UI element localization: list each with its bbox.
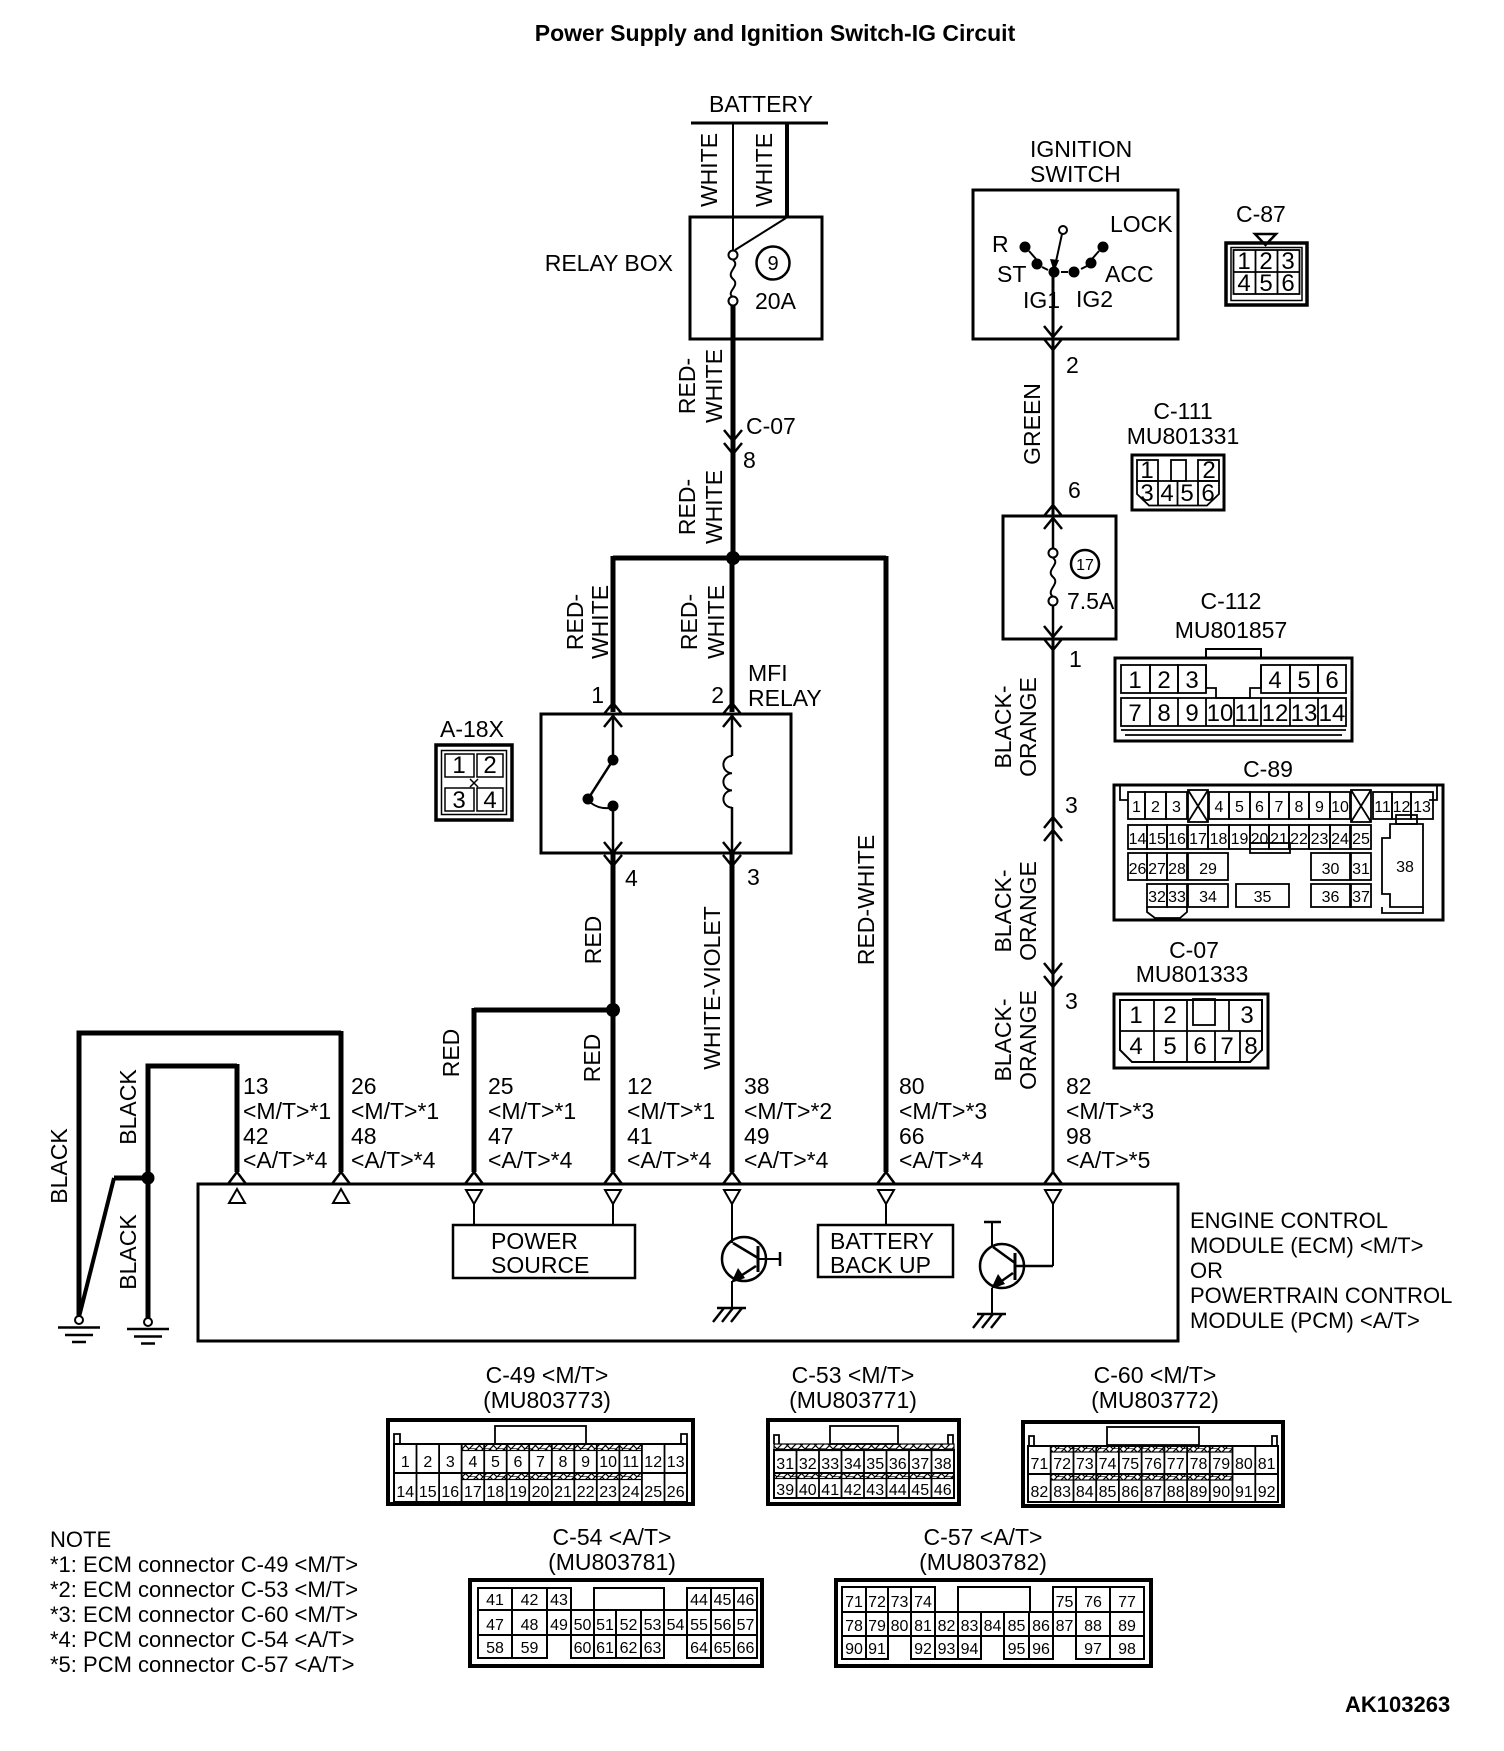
svg-text:35: 35: [1254, 889, 1272, 906]
svg-text:2: 2: [1163, 1002, 1176, 1029]
svg-text:BATTERY: BATTERY: [830, 1228, 934, 1254]
svg-text:11: 11: [1374, 799, 1391, 816]
svg-text:<M/T>*1: <M/T>*1: [351, 1098, 439, 1124]
svg-text:MU801333: MU801333: [1136, 961, 1249, 987]
ground G1: [58, 1316, 100, 1342]
svg-text:29: 29: [1199, 861, 1217, 878]
svg-text:<A/T>*4: <A/T>*4: [899, 1147, 984, 1173]
svg-text:65: 65: [714, 1640, 732, 1657]
svg-text:21: 21: [554, 1484, 572, 1501]
svg-text:RED-: RED-: [674, 479, 700, 535]
pin triangle 26/48: [333, 1189, 349, 1203]
svg-text:17: 17: [1189, 831, 1207, 848]
connector C-53 MU803771: [768, 1362, 959, 1504]
svg-text:20: 20: [532, 1484, 550, 1501]
svg-text:45: 45: [714, 1592, 732, 1609]
svg-text:7: 7: [1220, 1033, 1233, 1060]
svg-text:(MU803773): (MU803773): [483, 1387, 611, 1413]
fuse 17 7.5A box: [1003, 516, 1116, 639]
chassis ground Q2: [973, 1314, 1006, 1328]
fuse box exit chevrons: [1044, 626, 1062, 637]
svg-text:10: 10: [599, 1454, 617, 1471]
svg-text:4: 4: [1268, 667, 1281, 694]
svg-text:37: 37: [911, 1456, 929, 1473]
svg-text:97: 97: [1084, 1641, 1102, 1658]
svg-text:4: 4: [1215, 799, 1224, 816]
svg-text:MODULE (PCM) <A/T>: MODULE (PCM) <A/T>: [1190, 1308, 1420, 1333]
svg-text:83: 83: [1053, 1484, 1071, 1501]
svg-text:1: 1: [1129, 1002, 1142, 1029]
svg-text:6: 6: [1193, 1033, 1206, 1060]
ignition switch rotor: [1049, 226, 1068, 278]
svg-text:75: 75: [1121, 1456, 1139, 1473]
C-89 crossing chevrons: [1044, 817, 1062, 828]
svg-text:53: 53: [644, 1617, 662, 1634]
svg-text:6: 6: [1201, 480, 1214, 507]
svg-text:C-89: C-89: [1243, 756, 1293, 782]
svg-text:91: 91: [868, 1641, 886, 1658]
junction node B: [606, 1003, 620, 1017]
svg-text:LOCK: LOCK: [1110, 211, 1173, 237]
svg-text:14: 14: [1129, 831, 1147, 848]
svg-text:32: 32: [1148, 889, 1166, 906]
svg-text:85: 85: [1008, 1618, 1026, 1635]
svg-text:<M/T>*1: <M/T>*1: [488, 1098, 576, 1124]
svg-text:13: 13: [243, 1073, 269, 1099]
svg-text:WHITE: WHITE: [701, 470, 727, 544]
svg-text:62: 62: [620, 1640, 638, 1657]
svg-text:1: 1: [1132, 799, 1141, 816]
svg-text:63: 63: [644, 1640, 662, 1657]
connector C-89: [1114, 756, 1443, 920]
svg-text:SOURCE: SOURCE: [491, 1252, 589, 1278]
wire battery to relay box (WHITE) right: [785, 123, 789, 218]
svg-text:43: 43: [866, 1482, 884, 1499]
svg-text:77: 77: [1167, 1456, 1185, 1473]
svg-text:60: 60: [574, 1640, 592, 1657]
svg-text:98: 98: [1118, 1641, 1136, 1658]
svg-text:MU801857: MU801857: [1175, 617, 1288, 643]
svg-text:3: 3: [1065, 988, 1078, 1014]
svg-text:16: 16: [1168, 831, 1186, 848]
svg-text:13: 13: [1413, 799, 1431, 816]
wire ignition to fuse box (GREEN): [1052, 339, 1055, 516]
svg-text:73: 73: [1076, 1456, 1094, 1473]
svg-text:20: 20: [1251, 831, 1269, 848]
svg-text:50: 50: [574, 1617, 592, 1634]
svg-text:6: 6: [1068, 477, 1081, 503]
svg-text:OR: OR: [1190, 1258, 1223, 1283]
pin 2 entry chevrons: [723, 703, 741, 714]
svg-text:BLACK: BLACK: [115, 1214, 141, 1290]
svg-text:66: 66: [899, 1123, 925, 1149]
transistor Q1: [722, 1204, 780, 1309]
svg-text:ACC: ACC: [1105, 261, 1154, 287]
svg-text:<A/T>*4: <A/T>*4: [627, 1147, 712, 1173]
svg-text:C-60 <M/T>: C-60 <M/T>: [1094, 1362, 1217, 1388]
svg-text:51: 51: [596, 1617, 614, 1634]
svg-text:2: 2: [483, 752, 496, 779]
svg-text:58: 58: [486, 1640, 504, 1657]
svg-text:13: 13: [667, 1454, 685, 1471]
svg-text:74: 74: [914, 1594, 932, 1611]
svg-text:ORANGE: ORANGE: [1015, 677, 1041, 777]
svg-text:C-07: C-07: [1169, 937, 1219, 963]
wire diagonal to ground1: [79, 1178, 114, 1317]
wire label RED-WHITE mid branch: [676, 585, 729, 659]
svg-text:48: 48: [521, 1617, 539, 1634]
svg-text:A-18X: A-18X: [440, 716, 504, 742]
svg-text:6: 6: [1325, 667, 1338, 694]
svg-text:44: 44: [889, 1482, 907, 1499]
svg-text:RED: RED: [438, 1029, 464, 1078]
wire relay box to junction (RED-WHITE trunk): [731, 305, 736, 561]
svg-text:95: 95: [1008, 1641, 1026, 1658]
ECM pin entry chevrons: [228, 1172, 1062, 1184]
svg-text:9: 9: [1315, 799, 1324, 816]
svg-text:84: 84: [984, 1618, 1002, 1635]
svg-text:POWER: POWER: [491, 1228, 578, 1254]
svg-text:2: 2: [423, 1454, 432, 1471]
wire battery to relay box (WHITE) left: [732, 123, 734, 218]
ignition exit chevrons: [1044, 326, 1062, 337]
svg-text:NOTE: NOTE: [50, 1527, 111, 1552]
svg-text:7.5A: 7.5A: [1067, 588, 1115, 614]
svg-text:MU801331: MU801331: [1127, 423, 1240, 449]
connector crossing C-07 pin 8: [724, 413, 796, 473]
pin label 80/66: [899, 1073, 987, 1173]
svg-text:10: 10: [1207, 700, 1234, 727]
svg-text:71: 71: [845, 1594, 863, 1611]
wire junction C to ground2: [146, 1178, 151, 1318]
connector A-18X: [436, 716, 512, 820]
svg-text:49: 49: [744, 1123, 770, 1149]
wire horizontal junction bus: [613, 556, 886, 561]
svg-text:3: 3: [1240, 1002, 1253, 1029]
connector C-111 MU801331: [1127, 398, 1240, 510]
svg-text:<M/T>*3: <M/T>*3: [899, 1098, 987, 1124]
svg-text:WHITE: WHITE: [587, 585, 613, 659]
svg-text:41: 41: [627, 1123, 653, 1149]
wire mid horizontal: [146, 1064, 238, 1069]
wire label BLACK-ORANGE 2: [990, 861, 1041, 961]
svg-text:*3: ECM connector C-60 <M/T>: *3: ECM connector C-60 <M/T>: [50, 1602, 358, 1627]
svg-text:12: 12: [644, 1454, 662, 1471]
svg-text:ENGINE CONTROL: ENGINE CONTROL: [1190, 1208, 1388, 1233]
svg-text:45: 45: [911, 1482, 929, 1499]
svg-text:C-07: C-07: [746, 413, 796, 439]
svg-text:5: 5: [1163, 1033, 1176, 1060]
svg-text:11: 11: [622, 1454, 639, 1471]
svg-text:4: 4: [483, 787, 496, 814]
wire label BLACK-ORANGE 3: [990, 990, 1041, 1090]
ignition switch SW1: [973, 136, 1178, 339]
svg-text:POWERTRAIN CONTROL: POWERTRAIN CONTROL: [1190, 1283, 1452, 1308]
svg-text:2: 2: [1157, 667, 1170, 694]
svg-text:IGNITION: IGNITION: [1030, 136, 1132, 162]
svg-text:86: 86: [1032, 1618, 1050, 1635]
connector C-112 MU801857: [1115, 588, 1352, 741]
svg-text:12: 12: [1393, 799, 1411, 816]
contact ST chain dot: [1032, 259, 1043, 270]
svg-text:90: 90: [845, 1641, 863, 1658]
svg-text:WHITE: WHITE: [701, 349, 727, 423]
svg-text:52: 52: [620, 1617, 638, 1634]
svg-text:3: 3: [1185, 667, 1198, 694]
svg-text:85: 85: [1099, 1484, 1117, 1501]
svg-text:38: 38: [1396, 859, 1414, 876]
svg-text:90: 90: [1212, 1484, 1230, 1501]
svg-text:C-112: C-112: [1201, 588, 1262, 614]
svg-text:3: 3: [1065, 792, 1078, 818]
svg-text:*4: PCM connector C-54 <A/T>: *4: PCM connector C-54 <A/T>: [50, 1627, 354, 1652]
svg-text:24: 24: [1331, 831, 1349, 848]
svg-text:<A/T>*4: <A/T>*4: [488, 1147, 573, 1173]
svg-text:RED-: RED-: [676, 594, 702, 650]
svg-text:82: 82: [1031, 1484, 1049, 1501]
relay switch contact: [583, 714, 619, 853]
BATTERY BACK UP box: [818, 1204, 953, 1278]
svg-text:22: 22: [1290, 831, 1308, 848]
svg-text:5: 5: [1235, 799, 1244, 816]
svg-text:28: 28: [1168, 861, 1186, 878]
svg-text:74: 74: [1099, 1456, 1117, 1473]
contact LOCK: [1098, 242, 1109, 253]
wire ground2 riser (BLACK): [146, 1066, 151, 1176]
svg-text:42: 42: [521, 1592, 539, 1609]
svg-text:25: 25: [644, 1484, 662, 1501]
svg-text:57: 57: [737, 1617, 755, 1634]
svg-text:ORANGE: ORANGE: [1015, 861, 1041, 961]
svg-text:44: 44: [690, 1592, 708, 1609]
svg-text:*5: PCM connector C-57 <A/T>: *5: PCM connector C-57 <A/T>: [50, 1652, 354, 1677]
svg-text:<M/T>*1: <M/T>*1: [627, 1098, 715, 1124]
pin label 38/49: [744, 1073, 832, 1173]
svg-text:C-53 <M/T>: C-53 <M/T>: [792, 1362, 915, 1388]
svg-text:36: 36: [1322, 889, 1340, 906]
pin 4 exit chevrons: [604, 842, 622, 853]
svg-text:3: 3: [747, 864, 760, 890]
svg-text:15: 15: [1148, 831, 1166, 848]
svg-text:92: 92: [1258, 1484, 1276, 1501]
svg-text:2: 2: [1066, 352, 1079, 378]
svg-text:4: 4: [1129, 1033, 1142, 1060]
svg-text:3: 3: [452, 787, 465, 814]
contact R: [1020, 242, 1031, 253]
svg-text:AK103263: AK103263: [1345, 1692, 1450, 1717]
wire junction to MFI relay pin 1: [611, 556, 616, 712]
svg-text:4: 4: [468, 1454, 477, 1471]
pin triangle 12/41: [605, 1190, 621, 1204]
pin 1 entry chevrons: [604, 703, 622, 714]
svg-text:19: 19: [1231, 831, 1249, 848]
fuse box entry chevrons: [1044, 505, 1062, 516]
svg-text:WHITE: WHITE: [703, 585, 729, 659]
svg-text:34: 34: [1199, 889, 1217, 906]
svg-text:2: 2: [1151, 799, 1160, 816]
svg-text:77: 77: [1118, 1594, 1136, 1611]
svg-text:3: 3: [446, 1454, 455, 1471]
fuse 9 20A in relay box: [729, 218, 797, 314]
pin label 25/47: [488, 1073, 576, 1173]
svg-text:BLACK-: BLACK-: [990, 869, 1016, 952]
svg-text:23: 23: [1311, 831, 1329, 848]
svg-text:WHITE-VIOLET: WHITE-VIOLET: [699, 906, 725, 1070]
svg-text:79: 79: [1212, 1456, 1230, 1473]
svg-text:<M/T>*2: <M/T>*2: [744, 1098, 832, 1124]
svg-text:3: 3: [1140, 480, 1153, 507]
svg-text:41: 41: [821, 1482, 839, 1499]
svg-text:82: 82: [938, 1618, 956, 1635]
pin triangle 82/98: [1045, 1190, 1061, 1204]
pin triangle 80/66: [878, 1190, 894, 1204]
svg-text:Power Supply and Ignition Swit: Power Supply and Ignition Switch-IG Circ…: [535, 20, 1016, 46]
connector C-57 MU803782: [836, 1524, 1151, 1666]
svg-text:6: 6: [1281, 270, 1294, 297]
connector C-07 MU801333: [1114, 937, 1268, 1068]
wire ignition IG1 output: [1052, 272, 1055, 339]
wire to ECM pin 12 (RED): [611, 1010, 616, 1172]
svg-text:1: 1: [591, 682, 604, 708]
svg-text:6: 6: [514, 1454, 523, 1471]
ground G2: [127, 1318, 169, 1344]
svg-text:<A/T>*4: <A/T>*4: [351, 1147, 436, 1173]
svg-text:25: 25: [488, 1073, 514, 1099]
svg-text:32: 32: [799, 1456, 817, 1473]
svg-text:5: 5: [1259, 270, 1272, 297]
svg-text:26: 26: [351, 1073, 377, 1099]
svg-text:9: 9: [1185, 700, 1198, 727]
svg-text:40: 40: [799, 1482, 817, 1499]
svg-text:5: 5: [1180, 480, 1193, 507]
svg-text:9: 9: [581, 1454, 590, 1471]
svg-text:25: 25: [1352, 831, 1370, 848]
svg-text:81: 81: [914, 1618, 932, 1635]
contact ACC chain dot: [1086, 258, 1097, 269]
svg-text:42: 42: [243, 1123, 269, 1149]
svg-text:96: 96: [1032, 1641, 1050, 1658]
ECM side text: [1190, 1208, 1452, 1333]
svg-text:3: 3: [1172, 799, 1181, 816]
svg-text:12: 12: [627, 1073, 653, 1099]
svg-text:73: 73: [891, 1594, 909, 1611]
svg-text:46: 46: [934, 1482, 952, 1499]
svg-text:C-54 <A/T>: C-54 <A/T>: [553, 1524, 672, 1550]
svg-text:<A/T>*5: <A/T>*5: [1066, 1147, 1150, 1173]
svg-text:*1: ECM connector C-49 <M/T>: *1: ECM connector C-49 <M/T>: [50, 1552, 358, 1577]
svg-text:8: 8: [1295, 799, 1304, 816]
svg-text:C-87: C-87: [1236, 201, 1286, 227]
contact ACC dot: [1069, 267, 1080, 278]
svg-text:MODULE (ECM) <M/T>: MODULE (ECM) <M/T>: [1190, 1233, 1423, 1258]
svg-text:<M/T>*1: <M/T>*1: [243, 1098, 331, 1124]
svg-text:79: 79: [868, 1618, 886, 1635]
svg-text:84: 84: [1076, 1484, 1094, 1501]
connector C-49 MU803773: [388, 1362, 693, 1504]
connector C-87: [1226, 201, 1307, 305]
svg-text:10: 10: [1331, 799, 1349, 816]
wire top horizontal: [77, 1031, 342, 1036]
svg-text:RED: RED: [580, 916, 606, 965]
junction node C: [142, 1172, 155, 1185]
svg-text:ORANGE: ORANGE: [1015, 990, 1041, 1090]
svg-text:MFI: MFI: [748, 660, 788, 686]
svg-text:5: 5: [491, 1454, 500, 1471]
svg-text:14: 14: [396, 1484, 414, 1501]
svg-text:93: 93: [938, 1641, 956, 1658]
wire down to ECM pin 13: [235, 1064, 240, 1172]
pin 3 exit chevrons: [723, 842, 741, 853]
svg-text:18: 18: [1210, 831, 1228, 848]
svg-text:SWITCH: SWITCH: [1030, 161, 1121, 187]
svg-text:8: 8: [559, 1454, 568, 1471]
svg-text:49: 49: [550, 1617, 568, 1634]
svg-text:87: 87: [1056, 1618, 1074, 1635]
svg-text:87: 87: [1144, 1484, 1162, 1501]
svg-text:80: 80: [891, 1618, 909, 1635]
svg-text:18: 18: [487, 1484, 505, 1501]
svg-text:78: 78: [1190, 1456, 1208, 1473]
svg-text:1: 1: [401, 1454, 410, 1471]
svg-text:88: 88: [1167, 1484, 1185, 1501]
svg-text:23: 23: [599, 1484, 617, 1501]
svg-text:7: 7: [1128, 700, 1141, 727]
svg-text:76: 76: [1144, 1456, 1162, 1473]
svg-text:26: 26: [1129, 861, 1147, 878]
wire MFI pin 4 to junction B (RED): [611, 853, 616, 1012]
note block: [50, 1527, 358, 1677]
wire label RED-WHITE below C-07: [674, 470, 727, 544]
svg-text:IG2: IG2: [1076, 286, 1113, 312]
svg-text:4: 4: [1160, 480, 1173, 507]
svg-text:42: 42: [844, 1482, 862, 1499]
svg-text:94: 94: [961, 1641, 979, 1658]
POWER SOURCE box: [453, 1204, 635, 1278]
svg-text:66: 66: [737, 1640, 755, 1657]
svg-text:(MU803781): (MU803781): [548, 1549, 676, 1575]
wire label RED-WHITE above C-07: [674, 349, 727, 423]
svg-text:35: 35: [866, 1456, 884, 1473]
svg-text:82: 82: [1066, 1073, 1092, 1099]
svg-text:36: 36: [889, 1456, 907, 1473]
svg-text:72: 72: [868, 1594, 886, 1611]
wire junction to MFI relay pin 2: [730, 558, 735, 712]
svg-text:15: 15: [419, 1484, 437, 1501]
svg-text:81: 81: [1258, 1456, 1276, 1473]
svg-text:41: 41: [486, 1592, 504, 1609]
wire junction C stub: [114, 1176, 150, 1181]
svg-text:RELAY BOX: RELAY BOX: [545, 250, 673, 276]
svg-text:1: 1: [452, 752, 465, 779]
chassis ground Q1: [713, 1308, 746, 1322]
wire junction to ECM pin 80 (RED-WHITE): [884, 556, 889, 1172]
svg-text:RED: RED: [579, 1034, 605, 1083]
svg-text:BLACK: BLACK: [115, 1069, 141, 1145]
svg-text:1: 1: [1128, 667, 1141, 694]
svg-text:78: 78: [845, 1618, 863, 1635]
svg-text:24: 24: [622, 1484, 640, 1501]
svg-text:7: 7: [1275, 799, 1284, 816]
svg-text:46: 46: [737, 1592, 755, 1609]
svg-text:C-49 <M/T>: C-49 <M/T>: [486, 1362, 609, 1388]
junction node A: [726, 551, 740, 565]
svg-text:38: 38: [934, 1456, 952, 1473]
pin label 26/48: [351, 1073, 439, 1173]
svg-text:47: 47: [486, 1617, 504, 1634]
svg-text:31: 31: [1352, 861, 1370, 878]
pin label 13/42: [243, 1073, 331, 1173]
svg-text:4: 4: [1237, 270, 1250, 297]
